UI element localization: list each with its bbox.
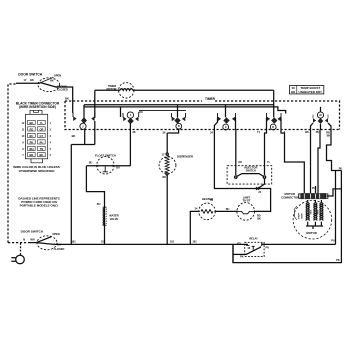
- svg-text:4: 4: [130, 114, 132, 117]
- svg-text:BU: BU: [97, 203, 101, 206]
- svg-text:6: 6: [50, 154, 52, 157]
- svg-text:34: 34: [195, 208, 198, 211]
- svg-text:PU: PU: [339, 168, 343, 171]
- svg-text:WDG: WDG: [317, 209, 319, 214]
- svg-text:YEL: YEL: [237, 241, 242, 245]
- svg-text:BK: BK: [257, 218, 261, 221]
- svg-text:WH: WH: [30, 237, 34, 241]
- svg-text:WDG: WDG: [311, 209, 313, 214]
- svg-text:2: 2: [284, 130, 286, 134]
- svg-text:BU: BU: [89, 162, 93, 165]
- svg-text:BK: BK: [162, 176, 166, 179]
- svg-text:GY: GY: [40, 134, 44, 138]
- svg-text:HEATER: HEATER: [202, 197, 213, 201]
- svg-text:161: 161: [192, 240, 197, 244]
- svg-text:46: 46: [247, 246, 250, 250]
- svg-text:2: 2: [82, 125, 84, 128]
- svg-text:YL: YL: [267, 161, 271, 164]
- svg-text:PK: PK: [30, 140, 34, 144]
- svg-text:FLOAT SWITCH: FLOAT SWITCH: [95, 153, 116, 157]
- svg-text:BK: BK: [72, 134, 76, 138]
- svg-text:CLOSED: CLOSED: [54, 247, 65, 251]
- svg-text:BK: BK: [40, 153, 44, 157]
- svg-text:71: 71: [257, 130, 260, 134]
- svg-text:OPEN: OPEN: [52, 232, 59, 236]
- svg-text:12: 12: [22, 122, 25, 125]
- svg-text:OR: OR: [238, 161, 242, 164]
- svg-text:D: D: [272, 126, 274, 129]
- svg-text:PU: PU: [331, 239, 335, 243]
- svg-text:PU: PU: [316, 130, 320, 134]
- svg-text:34: 34: [210, 131, 213, 135]
- svg-text:MAIN: MAIN: [301, 213, 304, 219]
- svg-text:BK: BK: [65, 96, 69, 100]
- svg-text:7: 7: [22, 154, 24, 157]
- svg-text:START: START: [298, 212, 301, 219]
- svg-text:17: 17: [24, 78, 27, 82]
- svg-text:PK: PK: [240, 255, 244, 259]
- svg-text:BR: BR: [30, 153, 34, 157]
- svg-text:RD: RD: [30, 127, 34, 131]
- svg-text:161: 161: [170, 240, 175, 244]
- svg-text:161: 161: [71, 240, 76, 244]
- svg-text:PK: PK: [336, 258, 340, 262]
- svg-text:8: 8: [22, 148, 24, 151]
- svg-text:BK: BK: [30, 121, 34, 125]
- svg-text:24: 24: [258, 191, 261, 194]
- svg-text:PU: PU: [40, 140, 44, 144]
- svg-text:4: 4: [50, 142, 52, 145]
- svg-text:RELAY: RELAY: [249, 236, 258, 240]
- svg-text:PU: PU: [312, 187, 316, 190]
- svg-text:PORTABLE MODELS ONLY: PORTABLE MODELS ONLY: [20, 203, 59, 207]
- svg-text:SWITCH: SWITCH: [246, 169, 256, 173]
- svg-text:BU: BU: [116, 167, 120, 170]
- svg-text:BK: BK: [50, 80, 54, 83]
- svg-text:BK: BK: [30, 78, 34, 82]
- svg-text:X: X: [225, 126, 227, 129]
- svg-text:BU: BU: [226, 208, 230, 211]
- svg-text:17: 17: [162, 153, 165, 156]
- svg-text:1: 1: [50, 122, 52, 125]
- svg-text:107: 107: [101, 240, 106, 244]
- svg-text:CONNECTOR: CONNECTOR: [281, 196, 299, 200]
- svg-text:MOTOR: MOTOR: [107, 87, 117, 91]
- svg-text:BK: BK: [327, 133, 331, 137]
- svg-text:N: N: [23, 237, 25, 241]
- svg-text:BK: BK: [57, 242, 61, 246]
- svg-text:M: M: [319, 114, 321, 117]
- svg-text:BK: BK: [305, 130, 309, 134]
- svg-text:N: N: [178, 125, 180, 128]
- svg-text:CLOSED: CLOSED: [57, 88, 68, 92]
- svg-text:2: 2: [50, 129, 52, 132]
- svg-text:DOOR SWITCH: DOOR SWITCH: [18, 72, 42, 76]
- svg-text:HD: HD: [291, 90, 296, 94]
- svg-text:36: 36: [163, 131, 166, 135]
- svg-text:TH'ST: TH'ST: [243, 199, 251, 203]
- svg-text:UNHEATED DRY: UNHEATED DRY: [299, 90, 323, 94]
- svg-text:OR: OR: [39, 127, 43, 131]
- svg-text:28: 28: [133, 130, 136, 134]
- svg-text:(WIRE INSERTION SIDE): (WIRE INSERTION SIDE): [19, 105, 56, 109]
- svg-text:BU: BU: [30, 134, 34, 138]
- svg-text:PU: PU: [265, 245, 269, 249]
- svg-text:3: 3: [50, 135, 52, 138]
- svg-text:9: 9: [22, 142, 24, 145]
- svg-text:OPEN: OPEN: [54, 74, 61, 78]
- svg-text:10: 10: [22, 135, 25, 138]
- svg-text:DOOR SWITCH: DOOR SWITCH: [21, 230, 44, 234]
- svg-text:MOTOR: MOTOR: [306, 231, 316, 235]
- svg-text:DISPENSER: DISPENSER: [177, 155, 193, 159]
- svg-text:5: 5: [50, 148, 52, 151]
- svg-text:TN: TN: [40, 147, 44, 151]
- svg-text:VALVE: VALVE: [110, 217, 119, 221]
- svg-text:OTHERWISE SPECIFIED: OTHERWISE SPECIFIED: [19, 169, 56, 173]
- svg-text:WH: WH: [29, 147, 33, 151]
- svg-text:11: 11: [22, 129, 25, 132]
- svg-text:TIMER: TIMER: [205, 97, 216, 101]
- svg-text:YL: YL: [40, 121, 44, 125]
